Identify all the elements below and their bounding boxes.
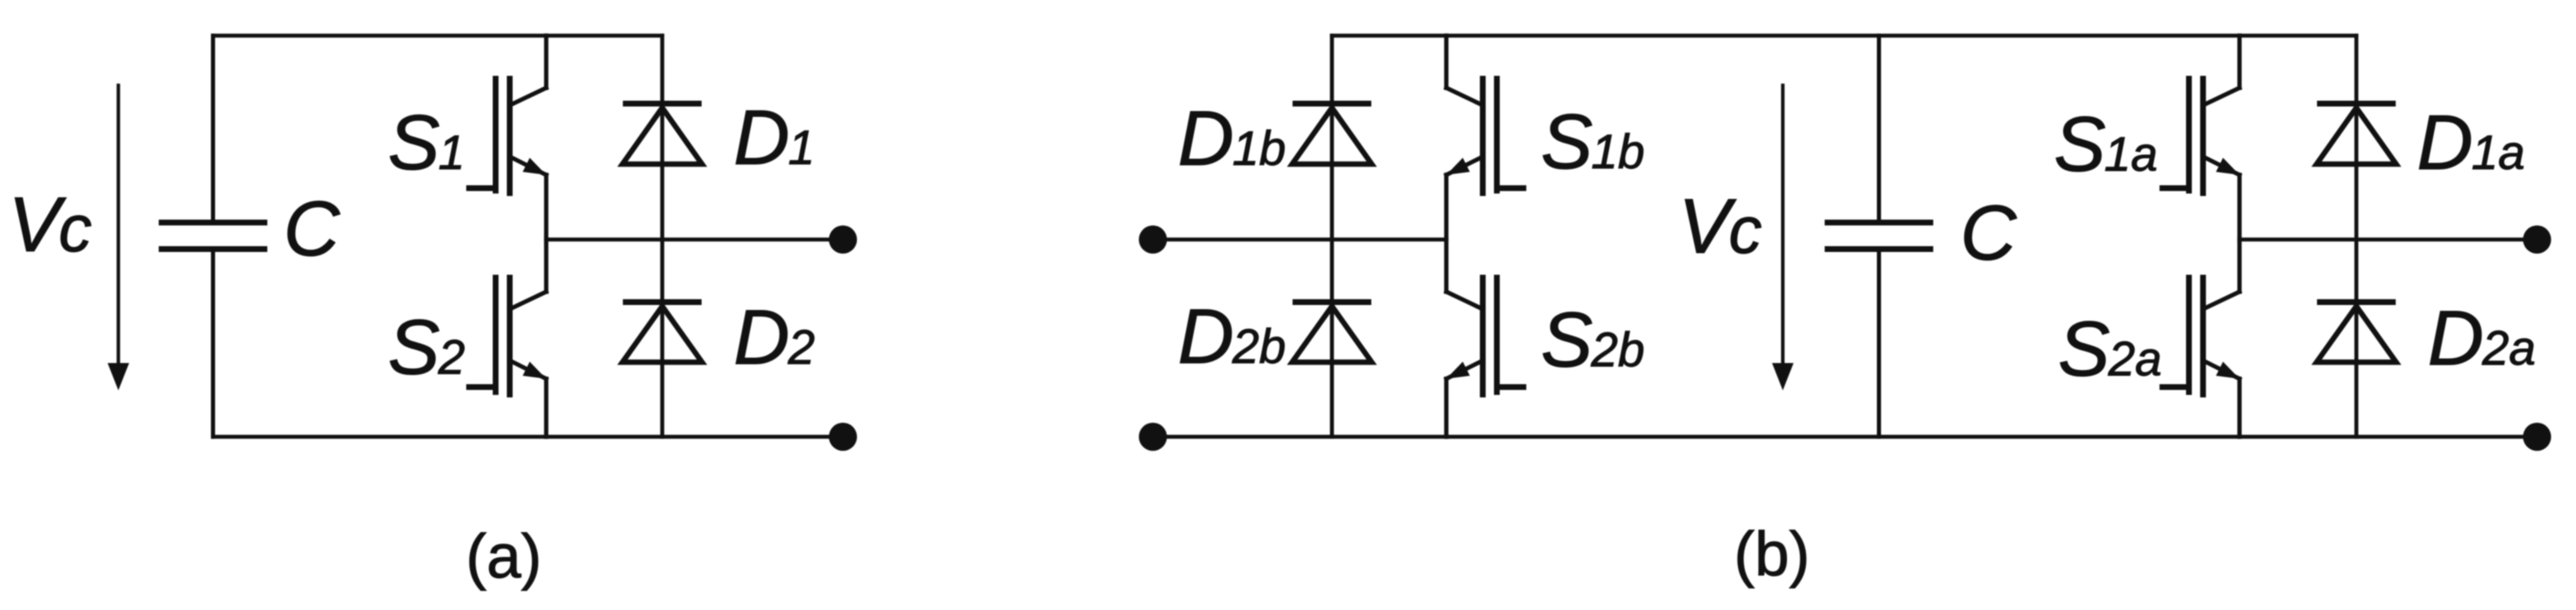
svg-text:Vc: Vc xyxy=(1678,182,1762,269)
svg-text:(b): (b) xyxy=(1734,519,1810,588)
svg-text:C: C xyxy=(1960,189,2017,276)
svg-text:Vc: Vc xyxy=(8,181,92,268)
svg-text:C: C xyxy=(283,185,341,272)
svg-text:(a): (a) xyxy=(466,521,542,591)
